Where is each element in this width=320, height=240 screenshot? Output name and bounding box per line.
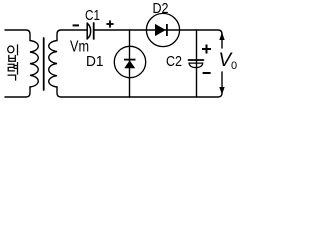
transformer core (43, 38, 45, 90)
력 giyeok (8, 75, 15, 80)
wire: D1 branch vertical (129, 30, 131, 97)
wire: C2 branch vertical (196, 30, 198, 97)
capacitor C2 straight plate (189, 59, 204, 61)
wire: secondary top lead to C1 (57, 30, 87, 41)
diode D1 arrow triangle (124, 60, 135, 68)
diode D2 arrow triangle (155, 24, 166, 36)
V0 arrowhead down (219, 87, 224, 95)
wire: top-left input lead (5, 30, 30, 41)
capacitor C2 curved plate (189, 63, 203, 68)
diode D2 circle (146, 13, 179, 46)
diode D1 circle (114, 46, 145, 77)
svg-text:D1: D1 (86, 53, 104, 70)
capacitor C1 straight plate (93, 23, 95, 39)
wire: bottom-left input lead (5, 87, 30, 97)
diode D2 cathode bar (166, 24, 168, 36)
V0 measure arrow line bottom (221, 72, 223, 93)
plus sign above C2 (202, 45, 211, 54)
svg-text:C2: C2 (166, 53, 182, 70)
력 yeo (14, 63, 17, 74)
svg-text:0: 0 (231, 60, 237, 72)
transformer secondary winding (49, 41, 57, 88)
plus sign right of C1 (106, 20, 113, 27)
minus sign below C2 (203, 72, 211, 74)
capacitor C1 curved plate (87, 23, 90, 39)
V0 arrowhead up (219, 33, 224, 41)
label input (Korean 입력) hand-drawn (8, 45, 18, 80)
입 bieup (9, 56, 16, 62)
wire: secondary bottom lead / bottom rail (57, 87, 222, 97)
transformer primary winding (30, 41, 38, 88)
diode D1 cathode bar (124, 59, 136, 61)
wire: top rail from C1 to right corner (95, 30, 223, 34)
입 ieung circle (8, 46, 14, 53)
svg-text:D2: D2 (153, 0, 169, 17)
svg-text:C1: C1 (85, 7, 100, 24)
입 i vertical (17, 45, 19, 55)
minus sign left of C1 (73, 24, 79, 26)
력 rieul (8, 64, 14, 71)
V0 measure arrow line top (221, 34, 223, 48)
